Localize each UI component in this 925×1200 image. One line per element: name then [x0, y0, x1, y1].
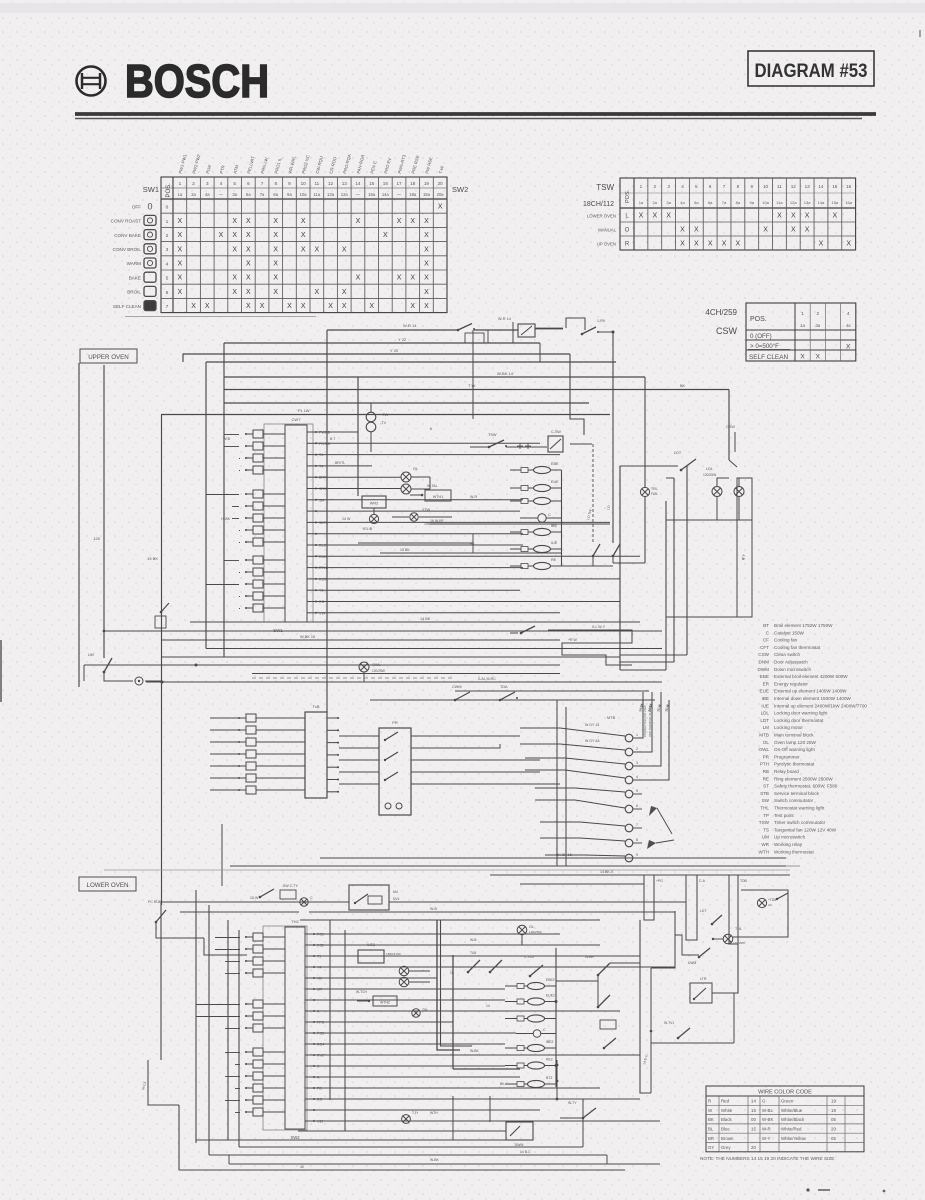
svg-text:PC RUB: PC RUB: [148, 900, 162, 904]
svg-text:1a: 1a: [178, 192, 183, 197]
svg-text:2a: 2a: [653, 200, 658, 205]
wire rail x358: [357, 377, 359, 496]
svg-text:External up element 1400W 1400: External up element 1400W 1400W: [774, 689, 847, 694]
svg-text:3a: 3a: [815, 323, 820, 328]
svg-text:19: 19: [424, 181, 430, 186]
wire bus y700: [370, 699, 655, 701]
svg-text:RE: RE: [551, 558, 557, 562]
svg-text:W-B: W-B: [430, 907, 438, 911]
mark scan edge left: [0, 640, 2, 702]
svg-text:13: 13: [342, 181, 348, 186]
svg-text:EBE: EBE: [760, 674, 769, 679]
wire mid right rails: [0, 0, 1, 1]
wire rail x327: [326, 330, 328, 712]
svg-text:PL LW: PL LW: [298, 408, 310, 413]
svg-text:FAN: FAN: [651, 492, 658, 496]
svg-text:BR: BR: [708, 1136, 714, 1141]
svg-text:WTH: WTH: [759, 849, 769, 854]
svg-text:X: X: [666, 213, 671, 220]
svg-text:8a: 8a: [273, 192, 278, 197]
svg-text:W-TAL: W-TAL: [427, 484, 438, 488]
svg-text:W-TCH: W-TCH: [356, 990, 368, 994]
svg-text:13a: 13a: [327, 192, 335, 197]
svg-text:TSW: TSW: [596, 183, 614, 192]
svg-text:CWM: CWM: [452, 685, 462, 689]
arrow mark up: [649, 806, 672, 834]
svg-text:MTB: MTB: [607, 715, 616, 720]
wire v557: [556, 1060, 559, 1100]
svg-text:7a: 7a: [722, 200, 727, 205]
wire bus y673: [252, 673, 560, 675]
svg-text:7: 7: [261, 181, 264, 186]
svg-text:BK: BK: [680, 384, 686, 388]
svg-text:W-B: W-B: [470, 938, 477, 942]
svg-text:W-R 14: W-R 14: [403, 323, 417, 328]
thermostat WTH2: [356, 990, 397, 1006]
svg-text:6: 6: [430, 427, 432, 431]
svg-text:Energy regulator: Energy regulator: [774, 681, 808, 686]
svg-text:15a: 15a: [831, 200, 838, 205]
wire rail x666: [665, 501, 667, 670]
wire v583: [582, 1099, 584, 1147]
wire bus y691: [455, 690, 649, 692]
svg-text:LM: LM: [763, 725, 770, 730]
wire v620: [619, 466, 621, 670]
svg-text:X: X: [301, 218, 306, 225]
svg-text:6a: 6a: [708, 200, 713, 205]
svg-text:1500/1700: 1500/1700: [386, 952, 401, 956]
svg-text:RLC: RLC: [319, 544, 327, 548]
svg-text:20: 20: [831, 1127, 836, 1132]
svg-text:TP: TP: [763, 813, 769, 818]
svg-text:X: X: [273, 275, 278, 282]
wire bus y920: [300, 919, 600, 921]
svg-text:RTLB: RTLB: [319, 566, 329, 570]
svg-text:W-R 14: W-R 14: [498, 317, 511, 321]
svg-text:15: 15: [369, 181, 375, 186]
svg-text:Tangential fan 120W 12V 40W: Tangential fan 120W 12V 40W: [774, 827, 837, 832]
svg-text:PG1: PG1: [317, 933, 324, 937]
svg-text:LTR: LTR: [700, 977, 707, 981]
svg-text:5: 5: [166, 276, 169, 282]
svg-text:+TD5: +TD5: [768, 898, 776, 902]
svg-text:X: X: [424, 218, 429, 225]
switch cluster top-left2: [259, 884, 299, 899]
svg-text:DWM: DWM: [515, 1143, 524, 1147]
svg-text:CSW: CSW: [726, 425, 735, 429]
svg-text:X: X: [232, 246, 237, 253]
svg-text:X: X: [763, 227, 768, 234]
svg-text:TDB: TDB: [740, 879, 748, 883]
svg-text:PG2: PG2: [317, 944, 324, 948]
svg-text:PR: PR: [763, 754, 770, 759]
svg-text:14 B-C: 14 B-C: [520, 1150, 531, 1154]
svg-text:15: 15: [751, 1108, 756, 1113]
svg-text:LOWER OVEN: LOWER OVEN: [87, 882, 129, 889]
svg-text:THL: THL: [760, 806, 769, 811]
svg-text:S-L W-Y: S-L W-Y: [592, 625, 606, 629]
svg-text:14: 14: [486, 1004, 490, 1008]
svg-text:DWM: DWM: [758, 667, 770, 672]
svg-text:X: X: [800, 353, 805, 360]
svg-text:White/Red: White/Red: [781, 1127, 802, 1132]
svg-text:X: X: [178, 261, 183, 268]
svg-text:RG4: RG4: [317, 1043, 324, 1047]
svg-text:2: 2: [636, 747, 638, 751]
lamp bottom mid: [402, 1111, 439, 1123]
table SW1 switch-position matrix: [111, 153, 469, 313]
svg-text:2a: 2a: [191, 192, 196, 197]
svg-text:120/25W: 120/25W: [372, 669, 385, 673]
svg-text:TSW: TSW: [488, 433, 497, 437]
svg-text:14: 14: [355, 181, 361, 186]
element IUE box: [358, 943, 401, 963]
svg-text:BK-BK 15: BK-BK 15: [556, 853, 572, 857]
svg-text:IBE: IBE: [551, 524, 557, 528]
svg-text:POS.: POS.: [625, 189, 631, 203]
svg-text:BOSCH: BOSCH: [125, 55, 269, 107]
svg-text:Brown: Brown: [721, 1136, 734, 1141]
svg-text:4: 4: [847, 311, 850, 316]
svg-text:MTB: MTB: [759, 733, 769, 738]
svg-text:10a: 10a: [300, 192, 308, 197]
switch STW lower: [560, 1101, 596, 1119]
svg-text:DWM: DWM: [688, 961, 696, 965]
svg-text:Door Adjuspatch: Door Adjuspatch: [774, 660, 808, 665]
svg-text:8: 8: [636, 838, 638, 842]
svg-text:RE2: RE2: [546, 1058, 553, 1062]
svg-text:X: X: [424, 261, 429, 268]
wire csw drop: [726, 425, 737, 467]
svg-text:X: X: [178, 275, 183, 282]
lamp THL: [712, 927, 745, 945]
wire v513 top: [498, 317, 513, 343]
switch C-TU5 lower: [524, 955, 543, 977]
svg-text:X: X: [273, 246, 278, 253]
svg-text:18CH/112: 18CH/112: [583, 201, 614, 208]
svg-text:6: 6: [166, 290, 169, 296]
svg-text:Internal down element 1500W 14: Internal down element 1500W 1400W: [774, 696, 852, 701]
svg-text:GY: GY: [708, 1145, 714, 1150]
svg-text:X: X: [232, 275, 237, 282]
svg-text:Grey: Grey: [721, 1145, 731, 1150]
svg-text:Relay board: Relay board: [774, 769, 799, 774]
svg-text:X: X: [397, 275, 402, 282]
svg-text:14 BK-S: 14 BK-S: [600, 870, 614, 874]
svg-text:16: 16: [383, 181, 389, 186]
svg-text:X: X: [410, 218, 415, 225]
svg-text:Up microswitch: Up microswitch: [774, 835, 806, 840]
svg-text:RG: RG: [317, 1098, 323, 1102]
wire bus y622: [190, 617, 640, 622]
svg-text:THL: THL: [735, 927, 742, 931]
svg-text:BT: BT: [763, 623, 769, 628]
svg-text:X: X: [410, 303, 415, 310]
svg-text:X: X: [273, 232, 278, 239]
svg-text:+TW: +TW: [422, 508, 431, 512]
switch left rail x161: [155, 603, 169, 628]
logo BOSCH wordmark: [125, 55, 269, 107]
svg-text:05: 05: [831, 1117, 836, 1122]
wire bus y902: [161, 896, 640, 902]
svg-text:14 W: 14 W: [342, 517, 351, 521]
svg-text:3: 3: [667, 184, 670, 189]
svg-text:14 BK: 14 BK: [420, 617, 431, 621]
svg-text:11: 11: [314, 181, 319, 186]
svg-text:R: R: [625, 242, 630, 248]
svg-text:V14: V14: [319, 611, 325, 615]
svg-text:X: X: [342, 246, 347, 253]
svg-text:PR: PR: [392, 720, 398, 725]
svg-text:SW2: SW2: [290, 1135, 300, 1140]
wire bottom y1140: [196, 1139, 533, 1141]
svg-text:0: 0: [166, 205, 169, 211]
svg-text:BRTL: BRTL: [319, 476, 328, 480]
svg-text:OFF: OFF: [132, 204, 141, 209]
label LOWER OVEN: [79, 877, 136, 891]
svg-text:PW1 B: PW1 B: [319, 431, 331, 435]
wire bottom y1155: [209, 1154, 607, 1156]
svg-text:Clean switch: Clean switch: [774, 652, 800, 657]
switch DWM pair: [585, 955, 610, 1008]
svg-text:VB: VB: [317, 977, 322, 981]
svg-text:T1: T1: [317, 955, 321, 959]
wire LDL bottom: [666, 508, 752, 520]
svg-text:Y 20: Y 20: [390, 348, 399, 353]
svg-text:C-TU5: C-TU5: [524, 955, 534, 959]
svg-text:1: 1: [166, 219, 169, 225]
wire bus y858: [320, 853, 786, 858]
wire bus y875: [490, 870, 790, 875]
connector SW1 contact row: [245, 430, 285, 612]
legend component abbreviations: [745, 623, 867, 866]
relay C-DW top: [518, 318, 615, 337]
svg-text:White/Yellow: White/Yellow: [781, 1136, 807, 1141]
svg-text:DV4: DV4: [393, 897, 400, 901]
lamp lower mid: [412, 1008, 428, 1017]
svg-text:BROIL: BROIL: [127, 290, 141, 295]
wire rail x738 lower: [734, 944, 738, 993]
wire stair right: [675, 935, 699, 955]
wire dark jog 1: [437, 920, 460, 1050]
switch DNM top: [403, 323, 518, 343]
svg-text:9a: 9a: [749, 200, 754, 205]
svg-text:13: 13: [805, 184, 811, 189]
svg-text:7a: 7a: [260, 192, 265, 197]
svg-text:C: C: [548, 513, 551, 517]
wire rail x540: [539, 343, 541, 362]
svg-text:PB: PB: [317, 1087, 322, 1091]
svg-text:13a: 13a: [804, 200, 811, 205]
svg-text:X: X: [246, 246, 251, 253]
wire MTB fan-in: [520, 723, 625, 856]
svg-text:X: X: [315, 246, 320, 253]
wire v593 locking: [570, 444, 600, 566]
svg-text:1: 1: [801, 311, 804, 316]
svg-text:TDA: TDA: [500, 685, 508, 689]
wire drop x330 lower: [329, 920, 331, 1100]
svg-text:WR: WR: [761, 842, 769, 847]
svg-text:10: 10: [763, 184, 769, 189]
svg-text:X: X: [816, 353, 821, 360]
wire rail x196 lower: [195, 890, 197, 1143]
switch LDT2: [700, 909, 722, 925]
svg-text:X: X: [342, 289, 347, 296]
svg-text:Y1: Y1: [319, 589, 323, 593]
svg-text:4: 4: [681, 184, 684, 189]
svg-text:3: 3: [636, 761, 638, 765]
svg-text:W GY 14: W GY 14: [585, 723, 599, 727]
table CSW 4CH/259 clean-switch matrix: [705, 303, 855, 361]
svg-text:15: 15: [751, 1127, 756, 1132]
svg-text:BT2: BT2: [546, 1076, 552, 1080]
svg-text:Ring element 2500W 2500W: Ring element 2500W 2500W: [774, 776, 833, 781]
svg-text:SW C-TY: SW C-TY: [283, 884, 298, 888]
svg-text:4: 4: [220, 181, 223, 186]
svg-text:RB: RB: [763, 769, 769, 774]
svg-text:19a: 19a: [423, 192, 431, 197]
switch TDA: [499, 685, 518, 701]
svg-text:14: 14: [818, 184, 824, 189]
svg-text:Service terminal block: Service terminal block: [774, 791, 820, 796]
svg-text:G: G: [762, 1099, 766, 1104]
svg-text:5: 5: [233, 181, 236, 186]
svg-text:2: 2: [192, 181, 195, 186]
svg-text:X: X: [424, 303, 429, 310]
svg-text:X: X: [246, 303, 251, 310]
wire LTR loop: [651, 993, 734, 1043]
wire bus y648: [206, 648, 662, 650]
relay LTR box: [690, 977, 712, 1003]
svg-text:15: 15: [832, 184, 838, 189]
svg-text:Black: Black: [721, 1117, 733, 1122]
svg-text:16: 16: [846, 184, 852, 189]
svg-text:EBE: EBE: [551, 462, 559, 466]
wire bottom y1147: [239, 1146, 583, 1148]
jumper U3: [729, 875, 748, 944]
svg-text:X: X: [846, 241, 851, 248]
svg-text:CSW: CSW: [758, 652, 769, 657]
svg-text:External broil element 4200W 5: External broil element 4200W 500W: [774, 674, 848, 679]
svg-text:R: R: [708, 1099, 711, 1104]
svg-text:STB: STB: [760, 791, 769, 796]
wire right top corner: [680, 384, 729, 460]
svg-text:EUE2: EUE2: [546, 994, 555, 998]
svg-text:16a: 16a: [845, 200, 852, 205]
svg-text:LDT: LDT: [700, 909, 706, 913]
svg-text:RG: RG: [319, 600, 325, 604]
relay box SW lower: [349, 885, 400, 910]
wire bus y682: [146, 677, 662, 684]
svg-text:11a: 11a: [776, 200, 783, 205]
svg-text:120/25W: 120/25W: [733, 941, 745, 945]
svg-text:120/25W: 120/25W: [703, 473, 717, 477]
svg-text:+R W: +R W: [568, 638, 578, 642]
svg-text:RV2: RV2: [317, 1054, 324, 1058]
svg-text:X: X: [369, 303, 374, 310]
svg-text:X: X: [791, 213, 796, 220]
wire bus y640: [161, 635, 560, 640]
svg-text:Down microswitch: Down microswitch: [774, 667, 811, 672]
switch LDT: [674, 451, 696, 471]
svg-text:Internal up element 2400W/1kW: Internal up element 2400W/1kW 2400W/7700: [774, 703, 867, 708]
svg-text:12a: 12a: [341, 192, 349, 197]
svg-text:POS.: POS.: [166, 183, 172, 198]
connector SW1 programmer block: [264, 417, 331, 633]
svg-text:X: X: [639, 213, 644, 220]
wire joins lower right: [556, 902, 686, 981]
svg-text:W-BK 14: W-BK 14: [497, 371, 514, 376]
jumper U2: [686, 875, 706, 940]
wire mid pair x557: [557, 700, 566, 866]
svg-text:T1: T1: [319, 453, 323, 457]
switch ladder lower2: [600, 1020, 616, 1049]
lamp LDL pair: [666, 467, 744, 508]
svg-text:7: 7: [166, 304, 169, 310]
svg-text:W-BL: W-BL: [762, 1108, 773, 1113]
wire v640 pair: [640, 920, 651, 1093]
svg-text:WTH2: WTH2: [380, 1001, 390, 1005]
svg-text:6: 6: [247, 181, 250, 186]
svg-text:T-Fr: T-Fr: [412, 1111, 419, 1115]
svg-text:X: X: [178, 218, 183, 225]
svg-text:X: X: [383, 232, 388, 239]
svg-text:Red: Red: [721, 1099, 730, 1104]
svg-text:EUE: EUE: [760, 689, 769, 694]
svg-text:6: 6: [709, 184, 712, 189]
svg-text:X: X: [694, 241, 699, 248]
note rotated 208V: [643, 705, 652, 737]
lamp pair lower: [399, 966, 430, 987]
svg-text:0-AL M-RC: 0-AL M-RC: [478, 677, 496, 681]
svg-text:NOTE: THE NUMBERS 14 15 19 20: NOTE: THE NUMBERS 14 15 19 20 INDICATE T…: [700, 1156, 834, 1161]
svg-text:4: 4: [636, 775, 638, 779]
svg-text:CFT: CFT: [760, 645, 769, 650]
svg-text:11a: 11a: [314, 192, 321, 197]
svg-text:TW: TW: [422, 1008, 428, 1012]
wire rail x161 lower: [160, 905, 162, 1060]
switch TP left rail: [84, 653, 161, 685]
svg-text:Blue: Blue: [721, 1127, 730, 1132]
svg-text:X: X: [819, 241, 824, 248]
svg-text:X: X: [424, 275, 429, 282]
svg-text:X: X: [680, 227, 685, 234]
svg-text:W-BK: W-BK: [762, 1117, 773, 1122]
svg-text:5a: 5a: [694, 200, 699, 205]
wire top thin bus: [125, 316, 316, 318]
switch DWM2: [688, 948, 710, 965]
title box DIAGRAM #53: [748, 51, 874, 86]
svg-text:10: 10: [301, 181, 307, 186]
svg-text:X: X: [273, 289, 278, 296]
wire v488 top: [487, 330, 489, 343]
svg-text:9: 9: [750, 184, 753, 189]
wire dark jog 3: [453, 955, 520, 1069]
svg-text:C-SW: C-SW: [551, 430, 561, 434]
arrow TDA mark: [647, 840, 674, 849]
svg-text:SW2: SW2: [452, 185, 468, 194]
svg-text:45: 45: [300, 1165, 304, 1169]
svg-text:Programmer: Programmer: [774, 754, 800, 759]
svg-text:14a: 14a: [382, 192, 390, 197]
svg-text:CSW: CSW: [716, 326, 738, 336]
svg-text:WTH: WTH: [430, 1111, 438, 1115]
svg-text:120: 120: [93, 536, 100, 541]
svg-text:IUE2: IUE2: [367, 943, 375, 947]
svg-text:W-TV1: W-TV1: [664, 1021, 674, 1025]
svg-text:7: 7: [636, 823, 638, 827]
table wire color code: [700, 1086, 864, 1161]
